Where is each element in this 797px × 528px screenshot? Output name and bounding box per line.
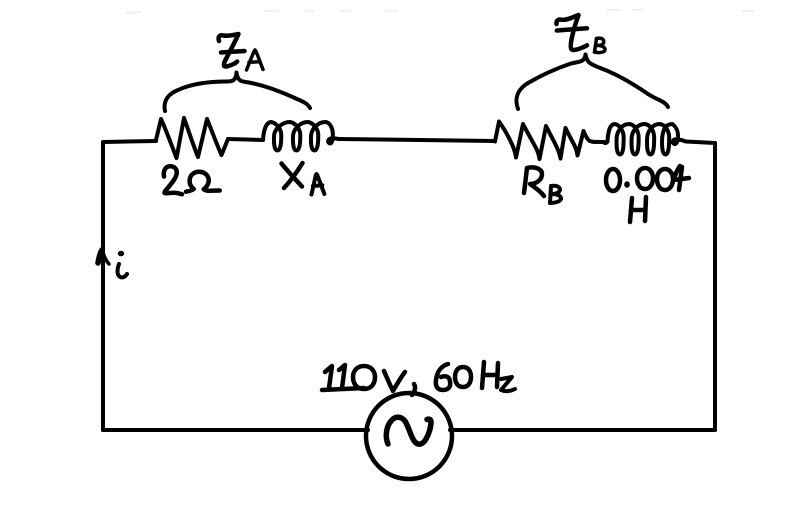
label 0.004 xyxy=(606,166,689,191)
resistor 2ohm xyxy=(156,118,228,158)
label 2ohm value 2 xyxy=(164,166,182,194)
wire top-left xyxy=(103,141,156,142)
label i xyxy=(118,251,128,278)
wire left vertical xyxy=(101,143,105,430)
wire between resistor and coil XA xyxy=(228,139,263,140)
label RB R xyxy=(524,167,544,196)
inductor XA xyxy=(263,122,339,151)
wire between RB and coil L xyxy=(594,140,604,144)
label ZA subscript A xyxy=(247,50,264,70)
label 110V 60Hz xyxy=(322,362,498,395)
label Hz subscript z xyxy=(501,377,515,391)
ac source sine symbol xyxy=(386,417,431,444)
brace ZA xyxy=(165,73,310,112)
resistor RB xyxy=(495,122,594,160)
label XA subscript A xyxy=(312,174,325,195)
faint smudge marks top xyxy=(126,10,754,13)
label XA X xyxy=(282,163,303,188)
inductor L 0.004H xyxy=(604,124,686,155)
label H xyxy=(630,197,646,222)
label ZA xyxy=(219,34,245,66)
ac source V1 circle xyxy=(366,393,452,479)
wire between XA and RB xyxy=(339,139,495,141)
label ZB subscript B xyxy=(595,38,606,52)
wire bottom right xyxy=(450,428,715,432)
brace ZB xyxy=(516,55,668,110)
wire right vertical xyxy=(713,143,717,430)
wire coil L to right corner xyxy=(686,142,715,144)
label 2ohm omega xyxy=(186,172,220,192)
label ZB xyxy=(556,15,587,50)
label RB subscript B xyxy=(550,186,561,203)
current arrow i head xyxy=(98,250,109,264)
wire bottom left xyxy=(103,428,368,432)
